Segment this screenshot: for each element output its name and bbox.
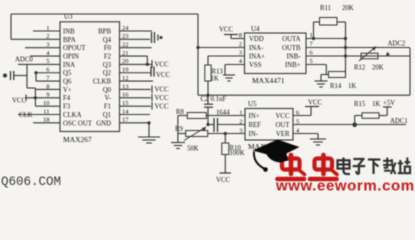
- svg-text:+5V: +5V: [383, 100, 395, 107]
- svg-text:OSC OUT: OSC OUT: [63, 120, 93, 127]
- svg-text:17: 17: [122, 117, 129, 124]
- svg-text:5: 5: [46, 58, 49, 65]
- svg-text:MAX4471: MAX4471: [252, 76, 285, 85]
- svg-text:Q2: Q2: [103, 70, 112, 77]
- svg-text:www.eeworm.com: www.eeworm.com: [275, 178, 415, 192]
- svg-text:8: 8: [239, 32, 242, 39]
- svg-text:13: 13: [122, 83, 129, 90]
- svg-text:21: 21: [122, 50, 129, 57]
- svg-text:VCC: VCC: [155, 95, 169, 102]
- svg-text:CLKB: CLKB: [93, 79, 112, 86]
- svg-text:R13: R13: [212, 69, 224, 76]
- svg-text:1644: 1644: [216, 110, 230, 117]
- svg-text:OPOUT: OPOUT: [63, 45, 87, 52]
- svg-text:VCC: VCC: [308, 100, 322, 107]
- svg-text:20K: 20K: [372, 65, 384, 72]
- svg-text:5: 5: [310, 58, 313, 65]
- svg-text:50K: 50K: [187, 146, 199, 153]
- svg-text:8: 8: [46, 83, 49, 90]
- svg-text:22: 22: [122, 42, 129, 49]
- svg-text:F2: F2: [104, 53, 112, 60]
- svg-text:Q606.COM: Q606.COM: [1, 175, 61, 189]
- svg-text:1K: 1K: [372, 101, 380, 108]
- svg-text:R11: R11: [320, 5, 331, 12]
- svg-text:R9: R9: [175, 126, 184, 133]
- svg-text:INB+: INB+: [285, 62, 301, 69]
- svg-text:Q4: Q4: [103, 37, 112, 44]
- svg-text:VCC: VCC: [276, 113, 290, 120]
- svg-text:Q3: Q3: [103, 62, 112, 69]
- svg-text:V+: V+: [63, 87, 72, 94]
- svg-text:VCC: VCC: [155, 103, 169, 110]
- svg-text:Q5: Q5: [63, 70, 72, 77]
- svg-text:INA: INA: [63, 62, 75, 69]
- svg-text:OUTB: OUTB: [282, 45, 301, 52]
- svg-text:4: 4: [239, 58, 243, 65]
- svg-text:2: 2: [239, 41, 242, 48]
- svg-text:24: 24: [122, 25, 129, 32]
- svg-text:VDD: VDD: [249, 36, 264, 43]
- svg-text:R14: R14: [330, 83, 342, 90]
- svg-text:VCC: VCC: [12, 98, 26, 105]
- svg-text:1: 1: [46, 25, 49, 32]
- svg-text:U5: U5: [248, 100, 257, 108]
- svg-text:F1: F1: [104, 104, 111, 111]
- svg-text:9: 9: [46, 92, 49, 99]
- svg-text:VSS: VSS: [249, 62, 262, 69]
- svg-text:0.1uF: 0.1uF: [211, 96, 227, 103]
- svg-text:Q1: Q1: [103, 112, 111, 119]
- svg-text:INA-: INA-: [249, 45, 264, 52]
- svg-text:20K: 20K: [342, 5, 354, 12]
- svg-text:VER: VER: [276, 131, 290, 138]
- svg-text:R12: R12: [354, 65, 366, 72]
- svg-text:OPIN: OPIN: [63, 53, 79, 60]
- svg-text:7: 7: [310, 41, 314, 48]
- svg-text:F4: F4: [63, 95, 71, 102]
- svg-text:IN+: IN+: [249, 113, 260, 120]
- svg-text:ADC1: ADC1: [390, 118, 408, 125]
- svg-text:GND: GND: [96, 120, 111, 127]
- svg-text:F3: F3: [63, 104, 71, 111]
- svg-text:15: 15: [122, 100, 129, 107]
- svg-text:14: 14: [122, 108, 129, 115]
- svg-text:3: 3: [46, 42, 49, 49]
- svg-text:2: 2: [46, 33, 49, 40]
- svg-text:F0: F0: [104, 45, 112, 52]
- svg-text:1K: 1K: [348, 83, 356, 90]
- svg-text:100K: 100K: [230, 150, 245, 157]
- svg-text:MAX267: MAX267: [63, 135, 92, 144]
- svg-text:19: 19: [122, 67, 129, 74]
- svg-text:BPA: BPA: [63, 37, 76, 44]
- svg-text:12: 12: [122, 75, 129, 82]
- svg-text:OUTA: OUTA: [282, 36, 300, 43]
- svg-text:OUT: OUT: [276, 122, 291, 129]
- svg-text:ADC0: ADC0: [15, 57, 33, 64]
- svg-text:1K: 1K: [211, 76, 219, 83]
- svg-text:INA+: INA+: [249, 53, 265, 60]
- svg-text:16: 16: [122, 92, 129, 99]
- svg-text:VCC: VCC: [155, 62, 169, 69]
- svg-text:INB: INB: [63, 28, 75, 35]
- svg-text:ADC2: ADC2: [388, 41, 406, 48]
- svg-text:U4: U4: [251, 25, 260, 33]
- svg-text:R15: R15: [354, 101, 366, 108]
- svg-text:IN-: IN-: [249, 131, 259, 138]
- svg-text:6: 6: [310, 50, 314, 57]
- svg-text:V-: V-: [104, 95, 111, 102]
- svg-text:Q0: Q0: [103, 87, 112, 94]
- svg-text:BPB: BPB: [98, 28, 111, 35]
- svg-text:INB-: INB-: [287, 53, 302, 60]
- svg-text:R8: R8: [176, 109, 185, 116]
- svg-text:VCC: VCC: [156, 72, 170, 79]
- svg-text:VCC: VCC: [155, 87, 169, 94]
- svg-text:23: 23: [122, 33, 129, 40]
- svg-text:20: 20: [122, 58, 129, 65]
- svg-text:3: 3: [239, 50, 242, 57]
- svg-text:VCC: VCC: [216, 177, 230, 184]
- svg-text:18: 18: [43, 117, 50, 124]
- svg-text:Q6: Q6: [63, 79, 72, 86]
- svg-text:VCC: VCC: [219, 27, 233, 34]
- svg-text:10: 10: [43, 100, 50, 107]
- svg-text:CLKA: CLKA: [63, 112, 82, 119]
- svg-text:REF: REF: [249, 122, 262, 129]
- svg-text:CLK: CLK: [19, 112, 33, 119]
- svg-text:11: 11: [43, 108, 49, 115]
